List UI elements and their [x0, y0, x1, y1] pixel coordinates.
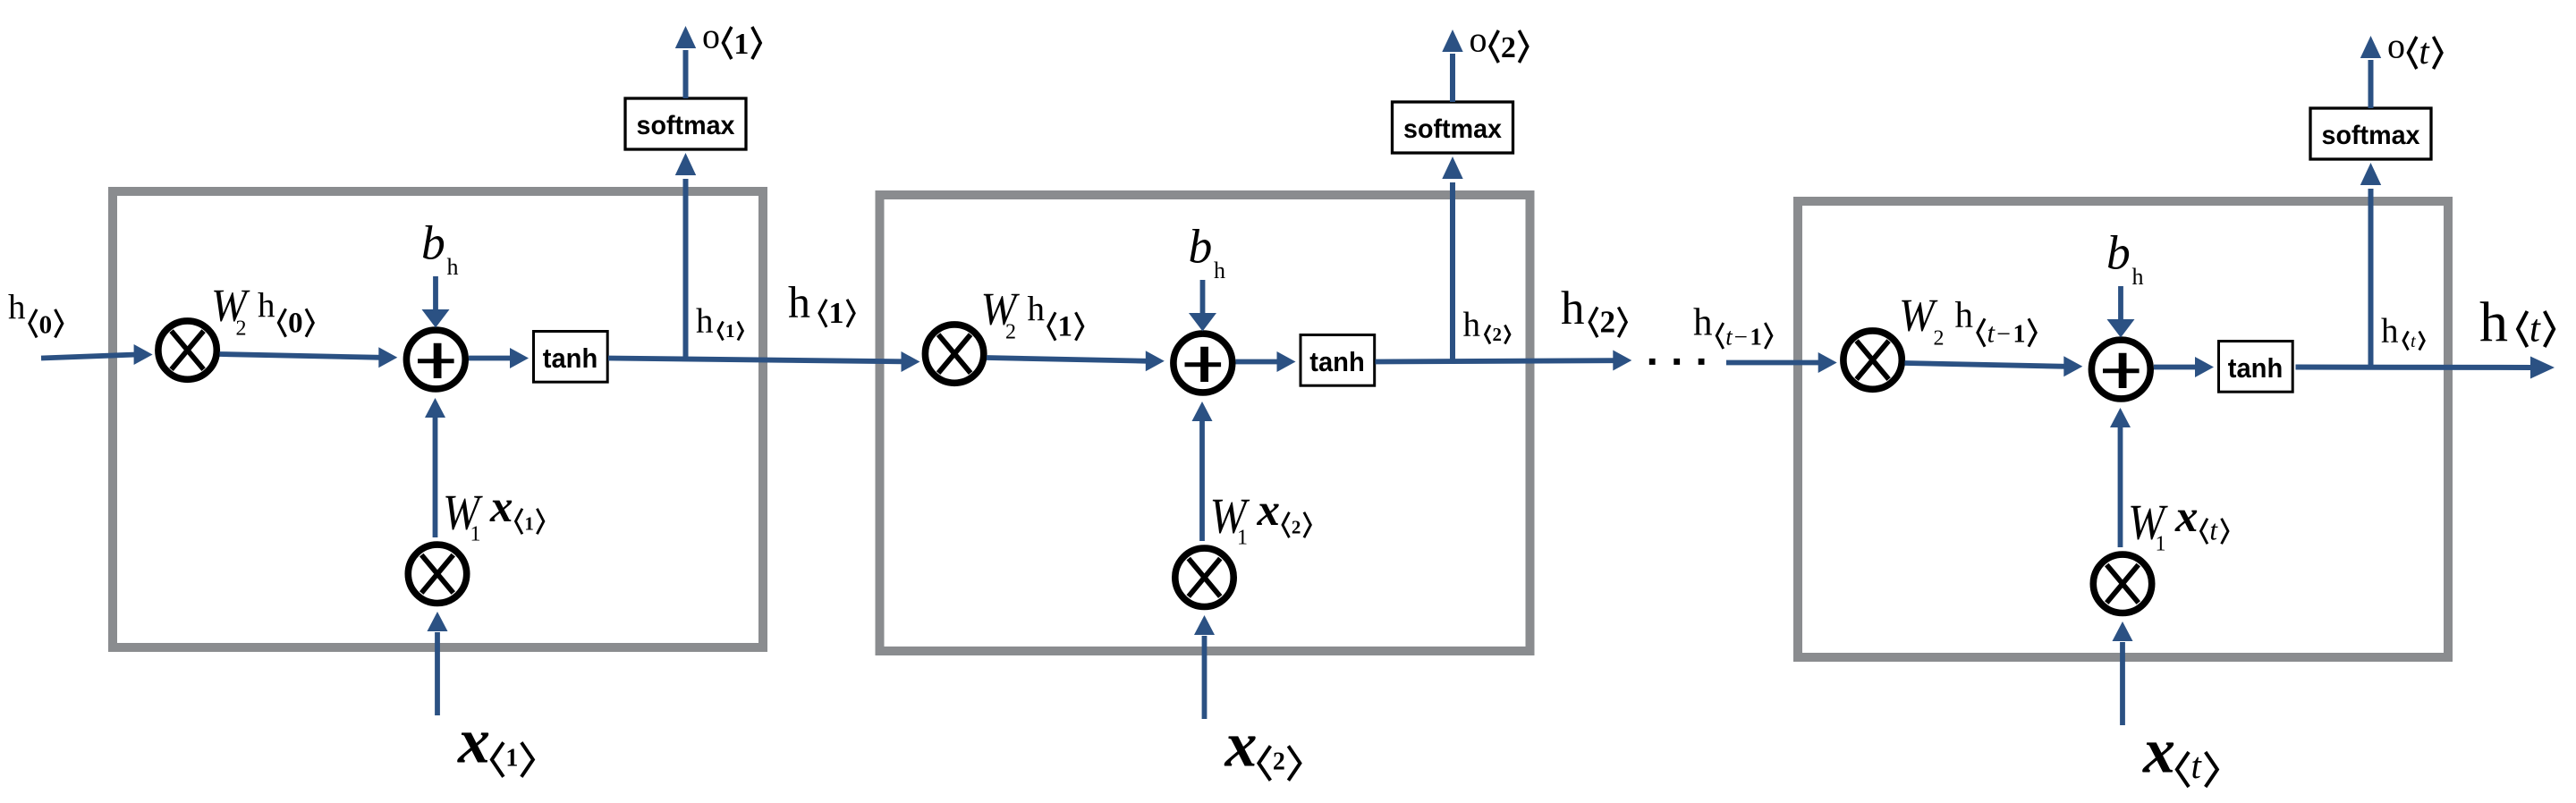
input arrow x<2> cell 2 — [1194, 615, 1215, 719]
label o<t> cell 3 — [2387, 26, 2442, 72]
svg-text:1: 1 — [524, 513, 534, 535]
svg-text:1: 1 — [733, 28, 749, 61]
svg-text:0: 0 — [39, 310, 53, 339]
svg-text:2: 2 — [1005, 321, 1016, 344]
svg-text:h: h — [2132, 264, 2144, 290]
output arrow o<1> cell 1 — [675, 26, 696, 98]
svg-text:1: 1 — [2156, 533, 2166, 556]
bias arrow into adder cell 3 — [2107, 286, 2135, 338]
svg-text:h: h — [1463, 306, 1481, 344]
svg-text:2: 2 — [1292, 517, 1301, 538]
label b_h cell 3 — [2106, 225, 2144, 290]
svg-text:1: 1 — [2012, 321, 2025, 349]
wire tanh2 toward ellipsis — [1376, 351, 1632, 371]
label b_h cell 1 — [421, 216, 459, 280]
input arrow x<t> cell 3 — [2113, 621, 2133, 725]
label b_h cell 2 — [1189, 219, 1226, 283]
svg-text:x: x — [1224, 709, 1258, 781]
svg-text:t: t — [2209, 515, 2218, 546]
wire multiply to adder cell 3 — [1905, 356, 2083, 376]
svg-text:tanh: tanh — [1309, 347, 1365, 377]
svg-text:2: 2 — [1934, 327, 1945, 351]
svg-text:o: o — [2387, 26, 2405, 66]
wire adder to tanh cell 3 — [2154, 357, 2214, 377]
svg-text:t: t — [2419, 31, 2430, 72]
input arrow x<1> cell 1 — [428, 612, 448, 715]
wire tanh output up to softmax cell 3 — [2360, 163, 2381, 368]
tanh box cell 3 — [2219, 342, 2293, 393]
softmax box cell 3 — [2310, 108, 2431, 159]
wire bottom multiply to adder cell 2 — [1192, 401, 1213, 541]
svg-text:t: t — [2529, 309, 2541, 351]
label h<1> between cell1 and cell2 — [788, 277, 854, 330]
multiply node (W2 x h) cell 2 — [925, 325, 983, 383]
label W2 h<0> cell 1 — [211, 279, 313, 341]
svg-text:h: h — [2381, 312, 2399, 351]
svg-text:x: x — [1257, 486, 1281, 536]
svg-text:softmax: softmax — [2322, 121, 2421, 150]
wire tanh output up to softmax cell 2 — [1442, 156, 1462, 362]
multiply node (W1 x x) cell 3 — [2093, 554, 2151, 613]
svg-text:2: 2 — [1599, 305, 1615, 340]
svg-text:x: x — [489, 482, 513, 532]
wire adder to tanh cell 2 — [1236, 351, 1296, 372]
svg-text:h: h — [1214, 258, 1225, 283]
svg-text:2: 2 — [1273, 748, 1285, 775]
svg-text:b: b — [2106, 225, 2131, 279]
wire adder to tanh cell 1 — [469, 348, 529, 368]
output wire h<t> from tanh3 — [2296, 357, 2555, 379]
RNN cell 3 box — [1798, 201, 2448, 657]
wire tanh1 to cell2 multiply — [608, 351, 920, 372]
wire ellipsis into cell3 multiply — [1726, 352, 1837, 373]
svg-text:tanh: tanh — [2228, 353, 2284, 384]
wire bottom multiply to adder cell 3 — [2110, 408, 2131, 547]
svg-text:b: b — [1189, 219, 1213, 273]
svg-text:2: 2 — [1492, 324, 1502, 345]
tanh box cell 1 — [534, 332, 608, 383]
label x<1> cell 1 — [457, 706, 533, 777]
svg-text:x: x — [2142, 715, 2175, 787]
ellipsis dots between cell2 and cell3 — [1649, 359, 1705, 365]
multiply node (W1 x x) cell 2 — [1175, 548, 1233, 606]
adder node cell 2 — [1174, 334, 1233, 393]
softmax box cell 1 — [625, 98, 746, 149]
multiply node (W2 x h) cell 1 — [158, 321, 216, 379]
label W1 x<2> cell 2 — [1210, 486, 1311, 549]
svg-text:h: h — [1693, 302, 1713, 344]
svg-text:0: 0 — [288, 308, 303, 340]
svg-text:h: h — [2479, 290, 2508, 353]
svg-text:−: − — [1996, 321, 2011, 349]
softmax box cell 2 — [1393, 102, 1513, 153]
svg-text:o: o — [1470, 20, 1487, 60]
svg-text:1: 1 — [1237, 527, 1248, 550]
svg-text:o: o — [702, 16, 720, 56]
svg-text:h: h — [1955, 294, 1974, 335]
svg-text:1: 1 — [1750, 323, 1762, 350]
svg-text:h: h — [696, 302, 714, 341]
label W1 x<t> cell 3 — [2128, 492, 2228, 555]
svg-text:h: h — [258, 287, 275, 325]
label h<t> final output — [2479, 290, 2554, 353]
RNN cell 1 box — [113, 191, 763, 647]
label x<2> cell 2 — [1224, 709, 1301, 781]
svg-text:1: 1 — [725, 320, 735, 342]
svg-text:x: x — [457, 706, 490, 777]
adder node cell 3 — [2091, 340, 2150, 399]
svg-text:1: 1 — [829, 297, 844, 330]
svg-text:1: 1 — [470, 523, 481, 546]
input wire h<0> into cell 1 — [41, 344, 153, 365]
bias arrow into adder cell 1 — [422, 276, 450, 328]
wire multiply to adder cell 2 — [987, 351, 1165, 371]
adder node cell 1 — [406, 330, 465, 389]
svg-text:−: − — [1734, 323, 1748, 350]
svg-text:h: h — [788, 277, 810, 327]
svg-text:h: h — [447, 254, 459, 280]
wire bottom multiply to adder cell 1 — [425, 398, 445, 537]
svg-text:1: 1 — [505, 744, 518, 772]
bias arrow into adder cell 2 — [1189, 280, 1216, 332]
multiply node (W2 x h) cell 3 — [1843, 331, 1902, 389]
svg-text:softmax: softmax — [637, 111, 736, 140]
svg-text:tanh: tanh — [543, 343, 598, 374]
label h<t-1> before cell3 — [1693, 302, 1772, 351]
label W1 x<1> cell 1 — [443, 482, 544, 545]
multiply node (W1 x x) cell 1 — [408, 545, 466, 603]
wire multiply to adder cell 1 — [220, 347, 398, 368]
svg-text:x: x — [2174, 492, 2199, 542]
tanh box cell 2 — [1301, 335, 1375, 386]
label h<t> at tanh output cell 3 — [2381, 312, 2424, 351]
label o<2> cell 2 — [1470, 20, 1528, 65]
RNN cell 2 box — [880, 195, 1530, 651]
label h<2> after cell2 — [1561, 283, 1626, 340]
svg-text:W: W — [1899, 289, 1938, 341]
svg-text:t: t — [1987, 318, 1996, 349]
svg-text:2: 2 — [236, 317, 247, 341]
label h<2> at tanh output cell 2 — [1463, 306, 1510, 345]
svg-text:b: b — [421, 216, 445, 269]
svg-text:h: h — [1028, 291, 1046, 329]
svg-text:h: h — [8, 288, 26, 326]
label W2 h<1> cell 2 — [981, 283, 1083, 344]
label o<1> cell 1 — [702, 16, 760, 62]
wire tanh output up to softmax cell 1 — [675, 153, 696, 359]
output arrow o<2> cell 2 — [1442, 30, 1462, 102]
svg-text:2: 2 — [1501, 31, 1516, 64]
svg-text:h: h — [1561, 283, 1585, 334]
svg-text:1: 1 — [1058, 311, 1073, 343]
svg-text:softmax: softmax — [1403, 114, 1503, 144]
label x<t> cell 3 — [2142, 715, 2217, 787]
output arrow o<t> cell 3 — [2360, 36, 2381, 108]
label W2 h<t1> cell 3 — [1899, 289, 2036, 351]
svg-text:t: t — [2191, 746, 2203, 786]
label h<1> at tanh output cell 1 — [696, 302, 742, 342]
label h<0> input — [8, 288, 63, 339]
